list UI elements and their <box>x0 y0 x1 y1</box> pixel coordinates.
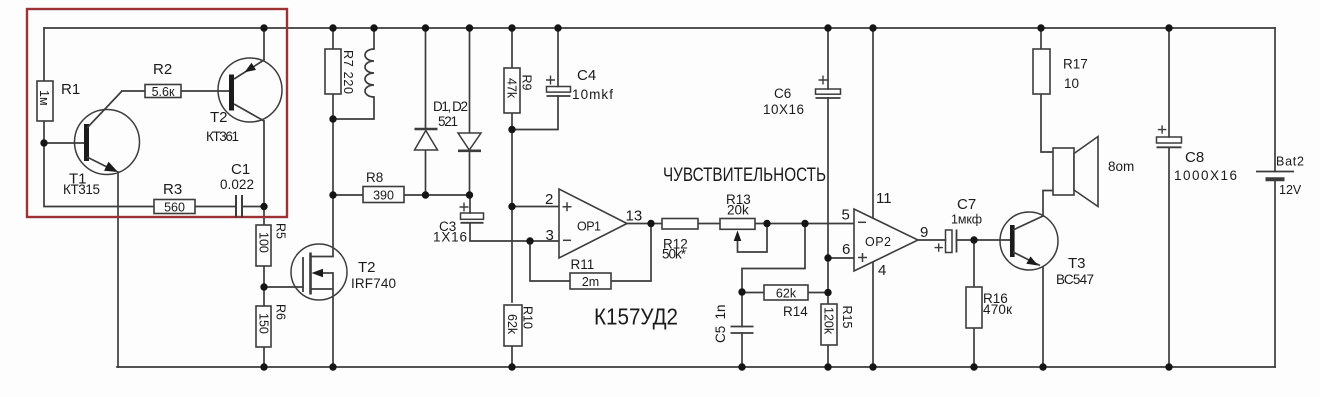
svg-text:КТ315: КТ315 <box>63 182 100 197</box>
svg-text:120k: 120k <box>822 307 836 335</box>
svg-text:100: 100 <box>257 232 271 253</box>
wire R6 bottom to rail <box>263 347 265 367</box>
wire T3 emitter to rail <box>1042 267 1044 367</box>
svg-text:R8: R8 <box>366 170 383 185</box>
transistor T2 KT361 <box>218 58 282 122</box>
resistor R15 <box>821 304 837 345</box>
svg-text:62k: 62k <box>505 314 519 335</box>
wire OP2 pin 6 <box>828 257 854 259</box>
svg-text:10: 10 <box>1064 76 1079 91</box>
resistor R1 <box>37 81 53 121</box>
wire coil bottom L to R7 node <box>333 97 374 119</box>
wire R14 left <box>742 292 764 294</box>
wire R11 right up to output <box>611 224 651 282</box>
wire top rail <box>44 27 1275 29</box>
svg-text:470к: 470к <box>983 302 1012 317</box>
wire T3 collector to speaker <box>1043 191 1053 217</box>
svg-text:11: 11 <box>876 190 892 207</box>
speaker <box>1053 137 1098 207</box>
wire R2 to T2 base <box>181 90 229 92</box>
svg-text:1000X16: 1000X16 <box>1174 168 1237 183</box>
wire R17 top <box>1040 28 1042 49</box>
svg-text:560: 560 <box>164 201 185 215</box>
wire C8 bottom <box>1168 147 1170 367</box>
wire D2 bottom <box>469 151 471 195</box>
svg-text:R14: R14 <box>783 304 808 319</box>
svg-text:13: 13 <box>626 208 643 225</box>
wire C1 to node <box>242 206 264 208</box>
wire mosfet source to bottom rail <box>332 273 334 367</box>
svg-text:R3: R3 <box>163 181 182 198</box>
svg-text:R10: R10 <box>521 306 535 329</box>
resistor R3 <box>154 200 195 214</box>
resistor R7 <box>325 49 341 94</box>
capacitor C6 <box>816 76 841 99</box>
svg-text:C6: C6 <box>774 86 791 101</box>
svg-text:R5: R5 <box>274 223 288 239</box>
wire mosfet drain up to R7 node <box>332 119 334 257</box>
svg-text:OP2: OP2 <box>865 235 891 249</box>
wire R12 to R13 <box>698 223 720 225</box>
wire C7 to T3 base <box>957 239 1011 241</box>
svg-text:521: 521 <box>438 114 458 129</box>
wire C6 top <box>827 28 829 89</box>
capacitor C3 <box>460 203 484 223</box>
svg-text:OP1: OP1 <box>577 220 601 234</box>
wire battery right column bottom <box>1274 179 1276 367</box>
wire R16 top <box>973 240 975 287</box>
svg-text:C5: C5 <box>713 326 728 343</box>
diode D1 <box>415 129 438 150</box>
svg-text:C8: C8 <box>1185 149 1204 166</box>
resistor R6 <box>256 306 271 347</box>
svg-text:КТ361: КТ361 <box>206 129 239 144</box>
transistor T2 IRF740 mosfet <box>291 244 347 300</box>
svg-text:R2: R2 <box>153 61 172 78</box>
wire R1 top <box>43 28 45 81</box>
resistor R9 <box>504 68 520 113</box>
svg-text:12V: 12V <box>1279 183 1302 197</box>
wire OP2 pin 4 <box>872 262 874 367</box>
wire R1 bottom to node A <box>43 121 45 143</box>
svg-text:T3: T3 <box>1068 255 1086 272</box>
svg-text:5: 5 <box>842 207 850 224</box>
wire R10 bottom <box>511 346 513 367</box>
svg-text:1м: 1м <box>37 90 51 106</box>
svg-text:R1: R1 <box>61 81 80 98</box>
svg-text:10mkf: 10mkf <box>572 87 613 102</box>
wire C3 top <box>469 195 471 213</box>
wire coil top <box>373 28 375 49</box>
svg-text:R6: R6 <box>274 304 288 320</box>
wire R16 bottom <box>973 328 975 367</box>
svg-text:8om: 8om <box>1108 159 1134 174</box>
svg-text:5.6к: 5.6к <box>152 85 175 99</box>
wire C3 bottom to OP1 pin 3 <box>470 223 559 241</box>
resistor R17 <box>1033 49 1050 94</box>
svg-text:390: 390 <box>373 189 394 203</box>
wire R3 to C1 <box>195 206 236 208</box>
wire R5 bottom to gate node <box>263 266 265 306</box>
resistor R5 <box>256 225 271 266</box>
svg-text:R7 220: R7 220 <box>341 50 355 94</box>
wire gate node to mosfet gate <box>264 286 303 288</box>
svg-text:ЧУВСТВИТЕЛЬНОСТЬ: ЧУВСТВИТЕЛЬНОСТЬ <box>663 164 826 186</box>
resistor R2 <box>145 85 181 98</box>
svg-text:ВС547: ВС547 <box>1056 272 1094 287</box>
wire C5 top <box>741 292 743 327</box>
wire C4 top <box>557 28 559 87</box>
resistor R8 <box>363 187 404 203</box>
wire R9 bottom through C4 node and pin2 node to R10 <box>511 113 513 302</box>
wire bottom rail <box>117 366 1275 368</box>
transistor T1 <box>75 91 140 175</box>
wire R17 bottom to speaker <box>1041 94 1053 152</box>
wire OP2 pin 11 <box>872 28 874 218</box>
capacitor C1 <box>236 195 242 218</box>
wire R14 right <box>808 292 828 294</box>
svg-text:Bat2: Bat2 <box>1276 155 1304 169</box>
wire C8 top <box>1168 28 1170 137</box>
wire T1 base <box>44 142 84 144</box>
svg-text:1X16: 1X16 <box>433 230 467 245</box>
wire T1 emitter to bottom rail <box>117 172 119 367</box>
resistor R16 <box>966 287 982 328</box>
capacitor C7 <box>935 230 957 253</box>
svg-text:C4: C4 <box>577 67 596 84</box>
wire R7 bottom <box>332 94 334 119</box>
wire R15 bottom <box>827 345 829 367</box>
svg-text:1n: 1n <box>713 304 728 319</box>
op-amp OP2 <box>854 209 918 271</box>
wire feedback from pin3 node down to R11 <box>530 241 570 281</box>
wire R7 top <box>332 28 334 49</box>
wire pin5 node down to C5 node <box>742 224 805 293</box>
svg-text:1мкф: 1мкф <box>951 213 982 227</box>
wire drain node to R8 <box>333 194 363 196</box>
wire C4 bottom L to R9 line <box>512 96 558 130</box>
wire R13 to OP2 pin 5 <box>755 223 854 225</box>
wire D1 bottom <box>425 150 427 195</box>
potentiometer R13 <box>720 219 755 230</box>
svg-text:150: 150 <box>257 313 271 334</box>
wire C5 bottom <box>741 333 743 367</box>
resistor R11 <box>570 273 611 289</box>
wire T2 emitter to top rail <box>263 28 265 60</box>
svg-text:R11: R11 <box>571 257 595 272</box>
inductor L coil <box>365 49 374 97</box>
svg-text:IRF740: IRF740 <box>351 276 396 291</box>
wire R8 right to diodes node <box>404 194 470 196</box>
battery Bat2 <box>1256 172 1294 180</box>
svg-text:К157УД2: К157УД2 <box>594 304 678 330</box>
capacitor C8 <box>1157 125 1182 147</box>
svg-text:20k: 20k <box>727 203 749 218</box>
svg-text:47k: 47k <box>505 78 519 99</box>
resistor R10 <box>504 305 522 346</box>
svg-text:50k*: 50k* <box>662 247 687 262</box>
wire R9 top <box>511 28 513 68</box>
svg-text:D1, D2: D1, D2 <box>433 99 468 114</box>
wire OP1 pin 2 <box>512 206 559 208</box>
potentiometer R13 wiper arrow <box>734 231 742 242</box>
wire D2 top <box>469 28 471 133</box>
capacitor C5 <box>731 327 754 334</box>
svg-text:6: 6 <box>842 241 850 258</box>
wire D1 top <box>425 28 427 129</box>
red highlight box <box>27 9 287 217</box>
wire OP2 output to C7 <box>918 239 946 241</box>
capacitor C4 <box>546 76 571 97</box>
wire T2 collector down to R5 <box>263 121 265 225</box>
transistor T3 BC547 <box>1000 212 1058 270</box>
resistor R14 <box>764 285 808 300</box>
svg-text:2m: 2m <box>582 275 599 289</box>
svg-text:T2: T2 <box>210 109 228 126</box>
svg-text:4: 4 <box>878 262 886 279</box>
wire node A down-left to R3 <box>44 143 154 207</box>
wire OP1 output to R12 <box>627 223 662 225</box>
op-amp OP1 <box>559 189 627 258</box>
svg-text:R17: R17 <box>1063 57 1088 72</box>
wire C6 bottom through pin6 and R14 nodes to R15 <box>827 98 829 304</box>
svg-text:T2: T2 <box>358 259 376 276</box>
svg-text:C7: C7 <box>957 196 976 213</box>
wire T1 collector to R2 <box>122 90 145 92</box>
svg-text:62k: 62k <box>776 287 797 301</box>
svg-text:3: 3 <box>546 227 554 244</box>
svg-text:R15: R15 <box>840 306 854 329</box>
svg-text:0.022: 0.022 <box>220 177 254 192</box>
svg-text:C1: C1 <box>231 161 250 178</box>
svg-text:2: 2 <box>545 191 553 208</box>
resistor R12 <box>662 219 698 230</box>
svg-text:9: 9 <box>920 224 928 241</box>
wire battery right column top <box>1274 28 1276 172</box>
svg-text:10X16: 10X16 <box>763 102 804 117</box>
diode D2 <box>458 133 481 151</box>
wire R13 wiper link <box>738 224 768 253</box>
svg-text:R9: R9 <box>520 75 534 91</box>
